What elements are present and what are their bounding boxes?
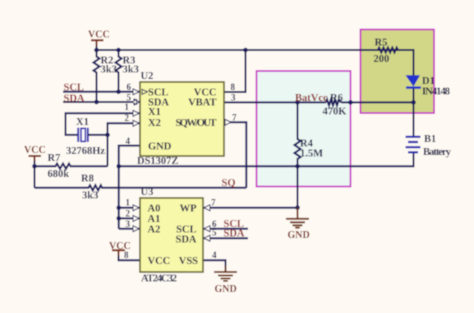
svg-text:VCC: VCC bbox=[148, 256, 171, 267]
svg-text:3k3: 3k3 bbox=[82, 191, 98, 202]
node WP/gnd bbox=[295, 205, 300, 210]
power VCC top bbox=[91, 40, 104, 46]
svg-text:SDA: SDA bbox=[175, 235, 196, 246]
wire U3 SDA stub bbox=[203, 237, 248, 239]
svg-text:6: 6 bbox=[127, 82, 132, 92]
svg-text:U3: U3 bbox=[141, 187, 154, 198]
svg-text:470K: 470K bbox=[323, 107, 348, 118]
svg-text:3: 3 bbox=[126, 219, 131, 229]
node box edge bbox=[348, 100, 353, 105]
svg-text:AT24C32: AT24C32 bbox=[141, 274, 177, 285]
svg-text:Battery: Battery bbox=[423, 147, 452, 158]
svg-text:GND: GND bbox=[288, 230, 310, 241]
pin arrow X1 bbox=[133, 110, 139, 116]
svg-text:IN4148: IN4148 bbox=[422, 87, 450, 98]
resistor R2 bbox=[94, 50, 100, 102]
wire U3 SCL stub bbox=[203, 228, 248, 230]
svg-text:3: 3 bbox=[231, 93, 236, 103]
node BatVcc/R4 bbox=[295, 100, 300, 105]
svg-text:A1: A1 bbox=[148, 214, 161, 225]
svg-text:680k: 680k bbox=[48, 169, 70, 180]
node U2 pin8 bbox=[243, 48, 248, 53]
svg-text:BatVcc: BatVcc bbox=[295, 93, 328, 104]
svg-text:32768Hz: 32768Hz bbox=[66, 146, 105, 157]
svg-text:X1: X1 bbox=[148, 107, 161, 118]
wire SCL net bbox=[63, 91, 140, 93]
highlight box (diode section, olive) bbox=[361, 30, 435, 114]
wire VCC top rail y=50 bbox=[97, 44, 414, 50]
wire X2 node bbox=[88, 123, 140, 166]
svg-text:GND: GND bbox=[215, 284, 237, 295]
svg-text:8: 8 bbox=[124, 250, 129, 260]
pin arrow WP bbox=[204, 205, 210, 211]
pin arrow SQW out bbox=[225, 119, 231, 125]
wire U2 pin8 VCC bbox=[224, 50, 246, 92]
pin arrow X2 bbox=[133, 120, 139, 126]
node A0 bbox=[116, 206, 121, 211]
pin arrow A1 bbox=[133, 215, 139, 221]
node VCC/R2 bbox=[94, 48, 99, 53]
node D1/battery bbox=[411, 100, 416, 105]
node R3/SCL bbox=[116, 90, 121, 95]
pin arrow A0 bbox=[133, 205, 139, 211]
svg-text:7: 7 bbox=[232, 113, 237, 123]
node gnd/pin4 bbox=[116, 164, 121, 169]
svg-text:VBAT: VBAT bbox=[188, 98, 216, 109]
svg-text:SDA: SDA bbox=[64, 94, 85, 105]
power VCC u3 bbox=[112, 250, 125, 255]
resistor R8 bbox=[35, 185, 247, 190]
svg-text:VCC: VCC bbox=[24, 145, 46, 156]
svg-text:200: 200 bbox=[374, 54, 390, 65]
svg-text:D1: D1 bbox=[422, 76, 435, 87]
pin arrows U2 bbox=[132, 89, 232, 241]
svg-text:VSS: VSS bbox=[179, 256, 198, 267]
IC U3 AT24C32 body bbox=[140, 198, 203, 272]
svg-text:SQW/OUT: SQW/OUT bbox=[176, 118, 217, 129]
svg-text:SCL: SCL bbox=[64, 83, 84, 94]
wire U3 VCC pin8 bbox=[119, 255, 141, 260]
svg-text:3k3: 3k3 bbox=[101, 65, 117, 76]
svg-text:R8: R8 bbox=[81, 174, 94, 185]
pin arrow SCL u3 bbox=[204, 226, 210, 232]
svg-text:2: 2 bbox=[126, 209, 131, 219]
svg-text:4: 4 bbox=[126, 136, 131, 146]
wire U2 GND pin4 bbox=[119, 146, 140, 229]
svg-text:3k3: 3k3 bbox=[123, 65, 139, 76]
power VCC left bbox=[29, 156, 42, 161]
svg-text:R6: R6 bbox=[330, 93, 343, 104]
svg-text:1.5M: 1.5M bbox=[300, 149, 323, 160]
wire U3 A0 bbox=[119, 207, 140, 209]
node R4 bottom bbox=[295, 164, 300, 169]
svg-text:SQ: SQ bbox=[222, 178, 236, 189]
svg-text:X2: X2 bbox=[148, 118, 161, 129]
ground U3 VSS bbox=[214, 266, 237, 281]
wire U3 A1 bbox=[119, 217, 140, 219]
svg-text:VCC: VCC bbox=[88, 30, 110, 41]
svg-text:A0: A0 bbox=[148, 204, 161, 215]
svg-text:7: 7 bbox=[211, 198, 216, 208]
wire X1 pin1 loop bbox=[66, 113, 141, 135]
resistor R6 bbox=[326, 99, 341, 105]
wire gnd rail bbox=[119, 166, 298, 207]
pin arrow SCL in bbox=[133, 89, 139, 95]
wire VBAT net bbox=[224, 101, 414, 103]
svg-text:U2: U2 bbox=[141, 71, 154, 82]
svg-text:R5: R5 bbox=[375, 38, 388, 49]
wire SDA net bbox=[63, 101, 140, 103]
svg-text:8: 8 bbox=[231, 82, 236, 92]
wire VCC left to R8 bbox=[34, 160, 36, 188]
IC U2 DS1307Z body bbox=[140, 82, 224, 156]
svg-text:R7: R7 bbox=[48, 153, 61, 164]
wire battery bottom to gnd rail bbox=[298, 152, 414, 166]
node VCC left bbox=[32, 164, 37, 169]
resistor R4 bbox=[295, 102, 301, 166]
svg-text:WP: WP bbox=[180, 204, 198, 215]
svg-text:2: 2 bbox=[125, 113, 130, 123]
resistor R3 bbox=[116, 50, 122, 92]
wire U3 A2 bbox=[119, 228, 140, 230]
svg-text:B1: B1 bbox=[424, 134, 436, 145]
highlight box (battery section, cyan) bbox=[257, 71, 351, 187]
pin arrow A2 bbox=[133, 226, 139, 232]
diode D1 body bbox=[406, 75, 421, 86]
node R2/SDA bbox=[94, 100, 99, 105]
diode D1 bbox=[413, 88, 415, 103]
node A1 bbox=[116, 216, 121, 221]
ground right bbox=[286, 208, 309, 228]
svg-text:A2: A2 bbox=[148, 225, 161, 236]
svg-text:DS1307Z: DS1307Z bbox=[137, 156, 178, 167]
wire SQW/OUT pin7 bbox=[224, 122, 246, 188]
resistor R5 bbox=[398, 50, 414, 76]
svg-text:5: 5 bbox=[127, 93, 132, 103]
crystal X1 bbox=[78, 128, 88, 142]
wire U3 VSS bbox=[203, 260, 226, 271]
svg-text:SDA: SDA bbox=[224, 229, 245, 240]
battery B1 bbox=[406, 137, 421, 153]
svg-text:X1: X1 bbox=[76, 117, 89, 128]
svg-text:5: 5 bbox=[212, 228, 217, 238]
svg-text:1: 1 bbox=[125, 102, 130, 112]
svg-text:GND: GND bbox=[148, 142, 172, 153]
pin arrow SDA u3 bbox=[204, 235, 210, 241]
wire U3 WP to gnd bbox=[203, 207, 298, 209]
svg-text:4: 4 bbox=[212, 250, 217, 260]
wire battery top bbox=[413, 102, 415, 136]
node R3 top bbox=[116, 48, 121, 53]
node X2/crystal bbox=[105, 133, 110, 138]
pin arrow SDA io bbox=[134, 99, 140, 105]
svg-text:1: 1 bbox=[126, 198, 131, 208]
resistor R7 bbox=[35, 164, 108, 169]
